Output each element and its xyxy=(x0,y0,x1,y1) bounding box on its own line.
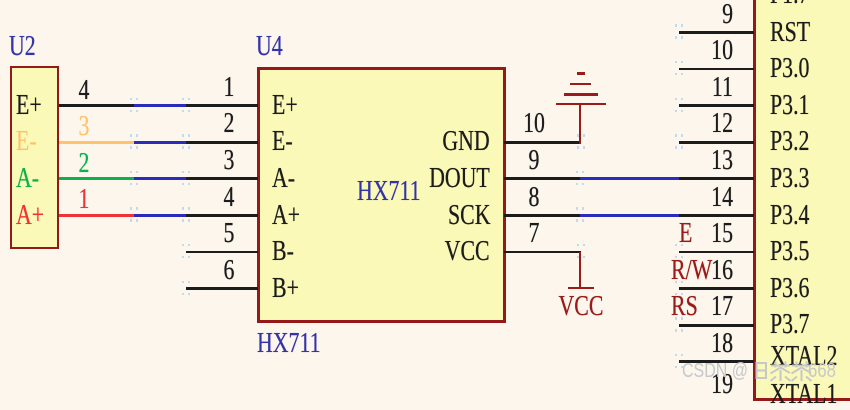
designator U2 xyxy=(9,33,36,61)
U4 pin label VCC xyxy=(445,238,490,266)
MCU pin 14 (P3.4) xyxy=(0,0,850,1)
U2 pin 1 xyxy=(0,0,850,1)
MCU pin 12 (P3.2) xyxy=(0,0,850,1)
MCU pin 10 (P3.0) xyxy=(0,0,850,1)
U4 pin label E+ xyxy=(272,92,298,120)
U4 pin 9 (DOUT) xyxy=(0,0,850,1)
MCU pin label P3.7 xyxy=(770,311,809,339)
U4 pin label GND xyxy=(443,128,490,156)
MCU pin 11 (P3.1) xyxy=(0,0,850,1)
MCU pin label P3.6 xyxy=(770,275,809,303)
MCU pin label P1.7 (cut off at top) xyxy=(770,0,809,9)
U4 pin label E- xyxy=(272,128,293,156)
U4 pin label DOUT xyxy=(429,165,490,193)
MCU pin 15 (P3.5) xyxy=(0,0,850,1)
U4 pin 7 (VCC) xyxy=(0,0,850,1)
U2 pin label A- xyxy=(16,165,39,193)
U2 pin label A+ xyxy=(16,202,44,230)
U4 pin 2 (E-) xyxy=(0,0,850,1)
connector U2 xyxy=(10,66,59,249)
wire net E- (U2 to U4) xyxy=(0,0,850,1)
U4 pin label A- xyxy=(272,165,295,193)
U4 pin 3 (A-) xyxy=(0,0,850,1)
part name HX711 (below U4) xyxy=(257,330,320,358)
wire net A+ (U2 to U4) xyxy=(0,0,850,1)
svg-text:CSDN @: CSDN @ xyxy=(682,360,748,382)
net label E xyxy=(679,220,692,248)
part type label HX711 (inside U4) xyxy=(357,178,420,206)
MCU pin label XTAL2 xyxy=(770,343,837,371)
svg-text:668: 668 xyxy=(808,360,836,382)
MCU pin 9 (RST) xyxy=(0,0,850,1)
U4 pin 5 (B-) xyxy=(0,0,850,1)
MCU pin label P3.4 xyxy=(770,202,809,230)
U4 pin 1 (E+) xyxy=(0,0,850,1)
wire net DOUT (U4.9 to MCU P3.3) xyxy=(0,0,850,1)
U2 pin label E- xyxy=(16,128,37,156)
U4 pin label B+ xyxy=(272,275,299,303)
U4 pin label SCK xyxy=(448,202,490,230)
net label R/W xyxy=(671,257,712,285)
MCU pin 13 (P3.3) xyxy=(0,0,850,1)
IC U4 HX711 xyxy=(257,67,507,324)
MCU pin 19 (cut off at bottom) xyxy=(711,371,733,399)
U2 pin 3 xyxy=(0,0,850,1)
MCU pin label P3.0 xyxy=(770,55,809,83)
wire net A- (U2 to U4) xyxy=(0,0,850,1)
wire net SCK (U4.8 to MCU P3.4) xyxy=(0,0,850,1)
MCU pin 16 (P3.6) xyxy=(0,0,850,1)
net label RS xyxy=(671,293,698,321)
U4 pin 4 (A+) xyxy=(0,0,850,1)
wire net E+ (U2 to U4) xyxy=(0,0,850,1)
power VCC xyxy=(0,0,850,1)
watermark xyxy=(680,357,850,387)
MCU pin 17 (P3.7) xyxy=(0,0,850,1)
MCU pin label P3.1 xyxy=(770,92,809,120)
MCU pin 18 (XTAL2) xyxy=(0,0,850,1)
MCU pin label P3.3 xyxy=(770,165,809,193)
U4 pin 8 (SCK) xyxy=(0,0,850,1)
MCU pin label P3.2 xyxy=(770,128,809,156)
MCU pin label RST xyxy=(770,19,810,47)
U4 pin label A+ xyxy=(272,202,300,230)
U2 pin 2 xyxy=(0,0,850,1)
MCU pin label XTAL1 (cut off at bottom) xyxy=(770,381,837,409)
U4 pin label B- xyxy=(272,238,294,266)
MCU U1 (partial 8051) xyxy=(753,0,850,401)
U2 pin label E+ xyxy=(16,92,42,120)
U2 pin 4 xyxy=(0,0,850,1)
U4 pin 6 (B+) xyxy=(0,0,850,1)
U4 pin 10 (GND) xyxy=(0,0,850,1)
ground xyxy=(0,0,850,1)
designator U4 xyxy=(256,33,283,61)
MCU pin label P3.5 xyxy=(770,238,809,266)
